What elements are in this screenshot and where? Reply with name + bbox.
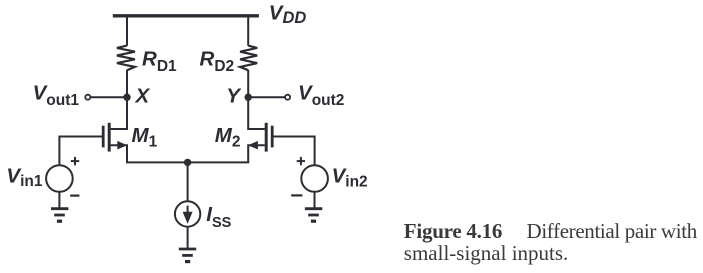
Vin2 plus sign — [297, 160, 305, 162]
wire M1 source — [111, 145, 127, 162]
wire RD2 to node Y — [247, 70, 249, 97]
wire rail to RD1 — [126, 18, 128, 46]
M1 source arrow — [117, 141, 127, 150]
wire common source rail — [126, 161, 249, 163]
resistor RD1 — [117, 46, 135, 71]
svg-text:VDD: VDD — [269, 1, 307, 27]
resistor RD2 — [240, 46, 257, 71]
node Y dot — [245, 94, 252, 101]
wire Vin1 to M1 gate — [59, 137, 102, 166]
current source ISS circle — [175, 201, 200, 226]
source Vin2 circle — [301, 165, 328, 192]
svg-text:Vout2: Vout2 — [298, 81, 344, 109]
wire M2 source — [248, 145, 265, 162]
wire node Y to M2 drain — [248, 97, 265, 129]
svg-text:Vin1: Vin1 — [6, 164, 42, 190]
wire node Y to Vout2 terminal — [248, 96, 284, 98]
wire node X to M1 drain — [111, 97, 127, 129]
svg-text:Figure 4.16: Figure 4.16 — [404, 219, 502, 243]
svg-text:Differential pair with: Differential pair with — [527, 219, 698, 243]
transistor M2 gate bar — [271, 126, 274, 148]
transistor M1 channel bar — [108, 123, 111, 152]
Vin1 plus sign — [71, 160, 79, 162]
node X dot — [123, 94, 130, 101]
tail node dot — [184, 159, 191, 166]
wire RD1 to node X — [126, 70, 128, 97]
svg-text:ISS: ISS — [206, 203, 231, 231]
svg-text:Vin2: Vin2 — [332, 165, 368, 191]
source Vin1 circle — [46, 165, 73, 192]
Vin2 minus sign — [291, 194, 302, 196]
terminal Vout2 open circle — [285, 95, 290, 100]
VDD rail — [113, 14, 259, 17]
wire ISS to ground — [187, 227, 189, 248]
svg-text:Y: Y — [226, 84, 242, 107]
ground under Vin1 — [51, 207, 68, 210]
transistor M1 gate bar — [102, 126, 105, 148]
wire node X to Vout1 terminal — [91, 96, 127, 98]
svg-text:X: X — [135, 84, 151, 107]
wire M2 gate to Vin2 — [273, 137, 314, 166]
wire tail node to ISS — [187, 162, 189, 201]
wire Vin2 to ground — [314, 192, 316, 208]
terminal Vout1 open circle — [85, 95, 90, 100]
transistor M2 channel bar — [265, 123, 268, 152]
svg-text:M2: M2 — [215, 124, 241, 151]
svg-text:M1: M1 — [132, 124, 158, 151]
ground under Vin2 — [305, 207, 322, 210]
Vin1 minus sign — [70, 195, 79, 197]
wire Vin1 to ground — [58, 192, 60, 208]
wire rail to RD2 — [247, 18, 249, 46]
svg-text:RD2: RD2 — [200, 48, 235, 75]
svg-text:small-signal inputs.: small-signal inputs. — [404, 241, 569, 265]
svg-text:Vout1: Vout1 — [33, 81, 80, 109]
ISS arrow — [187, 206, 189, 213]
ground under ISS — [179, 248, 196, 251]
M2 source arrow — [248, 141, 258, 150]
svg-text:RD1: RD1 — [142, 48, 177, 75]
